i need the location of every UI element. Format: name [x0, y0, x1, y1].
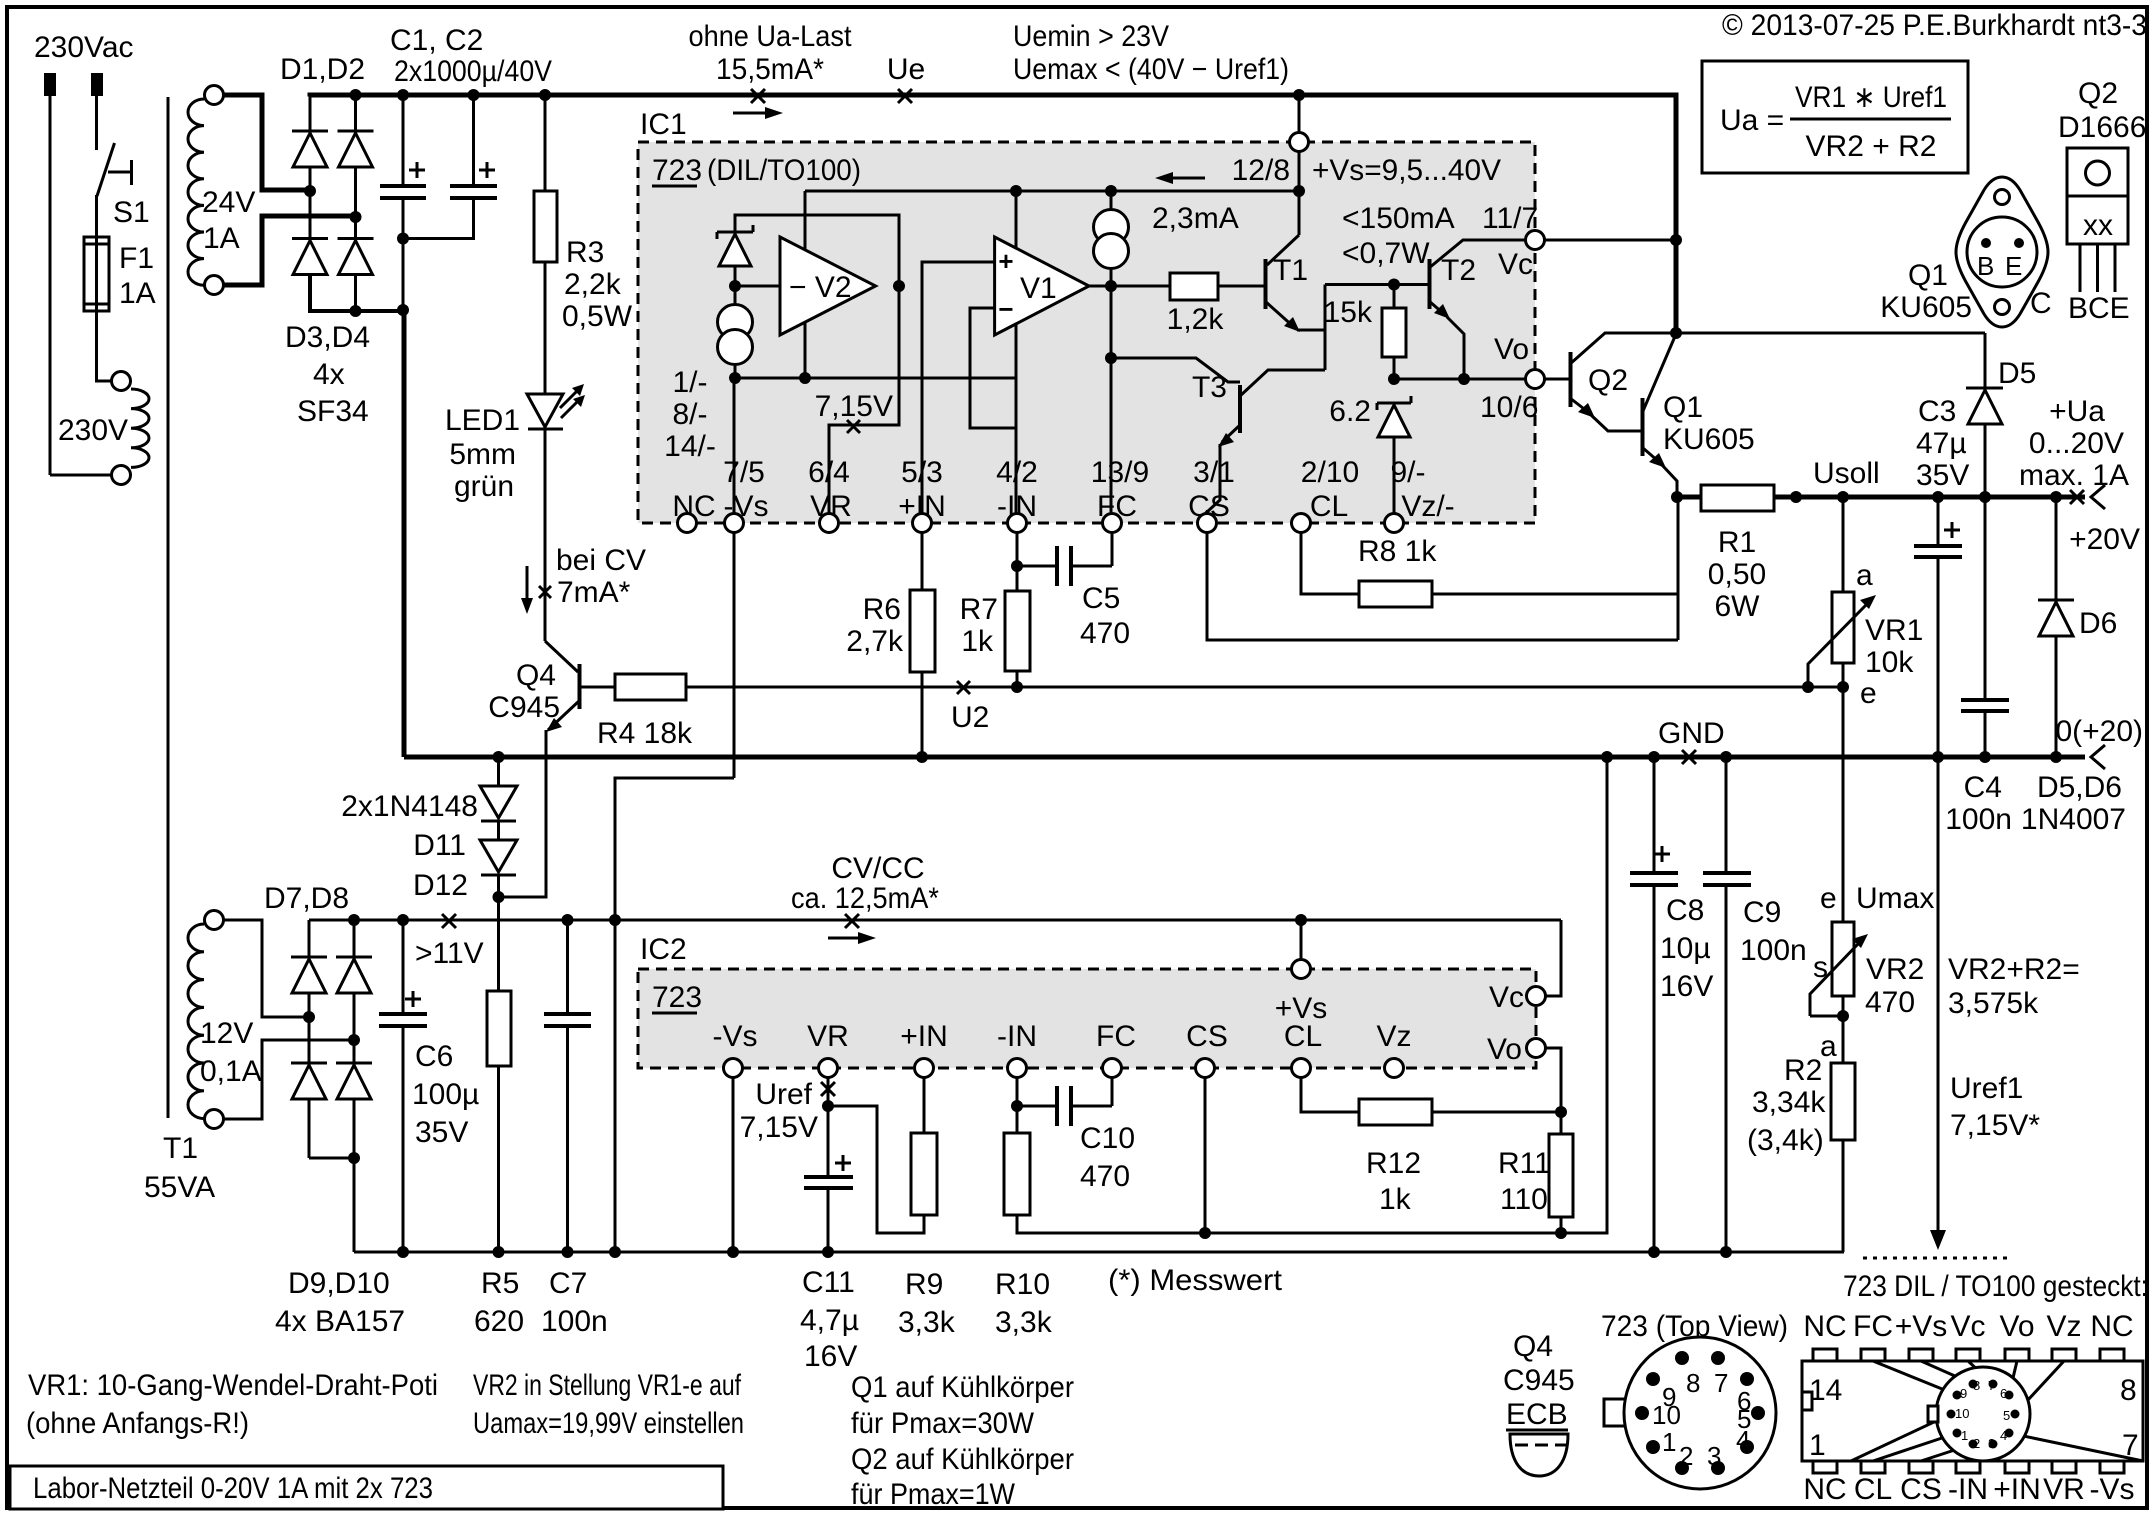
wire 24V bottom to bridge mid-right: [224, 216, 354, 285]
IC2 -Vs line: [732, 1078, 735, 1252]
LED1: [527, 394, 563, 427]
svg-text:NC: NC: [2090, 1310, 2133, 1343]
svg-text:Vo: Vo: [1494, 333, 1529, 366]
svg-text:7,15V: 7,15V: [740, 1111, 818, 1144]
transistor Q2 (driver): [1569, 352, 1573, 407]
svg-text:2,2k: 2,2k: [564, 268, 622, 301]
svg-text:C8: C8: [1666, 894, 1704, 927]
svg-text:D9,D10: D9,D10: [288, 1267, 390, 1300]
svg-text:14: 14: [1809, 1374, 1842, 1407]
IC2 Vo: [1545, 1048, 1561, 1113]
svg-text:Usoll: Usoll: [1813, 457, 1880, 490]
svg-text:ohne Ua-Last: ohne Ua-Last: [689, 20, 853, 53]
svg-text:Q2: Q2: [1588, 364, 1628, 397]
svg-text:3,3k: 3,3k: [995, 1306, 1053, 1339]
wire: [50, 474, 112, 477]
svg-text:+IN: +IN: [1993, 1473, 2041, 1506]
svg-text:1: 1: [1809, 1429, 1826, 1462]
-IN internal to V1-: [970, 308, 1016, 514]
svg-text:R11: R11: [1498, 1147, 1551, 1180]
svg-text:4,7µ: 4,7µ: [800, 1304, 859, 1337]
svg-text:3: 3: [1988, 1436, 1995, 1451]
svg-text:8: 8: [1686, 1368, 1700, 1398]
svg-text:8: 8: [2120, 1374, 2137, 1407]
svg-text:max. 1A: max. 1A: [2019, 459, 2129, 492]
svg-text:R3: R3: [566, 236, 604, 269]
svg-text:R8 1k: R8 1k: [1358, 535, 1437, 568]
top supply bus: [310, 95, 1676, 333]
svg-text:7,15V: 7,15V: [815, 390, 893, 423]
svg-text:SF34: SF34: [297, 395, 369, 428]
VR1-e line down to VR2: [1842, 687, 1845, 922]
svg-text:Q1 auf Kühlkörper: Q1 auf Kühlkörper: [851, 1371, 1074, 1404]
C3 47u 35V: [1937, 497, 1940, 545]
bridge bottom bus: [310, 275, 404, 311]
svg-text:Uref1: Uref1: [1950, 1072, 2023, 1105]
op-amp V2: [780, 237, 876, 335]
svg-text:14/-: 14/-: [664, 430, 716, 463]
current direction arrow at IC1 input: [733, 112, 770, 115]
svg-text:2,7k: 2,7k: [846, 625, 904, 658]
svg-text:10k: 10k: [1865, 646, 1914, 679]
-Vs pin line: [733, 378, 736, 778]
mains plug pin N: [91, 73, 103, 96]
CS line down: [1204, 1078, 1207, 1233]
VR1 10k potentiometer: [1842, 497, 1845, 592]
svg-text:Ua =: Ua =: [1720, 104, 1784, 137]
svg-text:T2: T2: [1441, 254, 1476, 287]
svg-text:FC: FC: [1853, 1310, 1893, 1343]
reference zener: [717, 225, 753, 239]
C9 100n: [1725, 757, 1728, 872]
svg-text:e: e: [1860, 677, 1877, 710]
R10 3,3k: [1016, 1078, 1019, 1133]
svg-text:723: 723: [652, 981, 702, 1014]
C10 470: [1017, 1105, 1055, 1108]
svg-text:D5,D6: D5,D6: [2037, 771, 2122, 804]
svg-text:-Vs: -Vs: [713, 1020, 758, 1053]
diode D9: [308, 1017, 311, 1158]
bei CV measurement: [526, 566, 529, 604]
svg-text:723: 723: [652, 154, 702, 187]
IC2 +Vs: [1295, 914, 1307, 926]
svg-text:Vc: Vc: [1489, 981, 1524, 1014]
svg-text:3,34k: 3,34k: [1752, 1086, 1826, 1119]
svg-text:bei CV: bei CV: [556, 544, 646, 577]
transformer secondary 24V winding: [205, 86, 224, 105]
svg-text:10/6: 10/6: [1480, 391, 1538, 424]
svg-text:C10: C10: [1080, 1122, 1135, 1155]
thick vertical to GND rail: [402, 311, 407, 757]
svg-text:Q1: Q1: [1663, 391, 1703, 424]
svg-text:35V: 35V: [415, 1116, 468, 1149]
transformer secondary 12V winding: [205, 911, 224, 930]
svg-text:+Vs: +Vs: [1895, 1310, 1948, 1343]
svg-text:3,575k: 3,575k: [1948, 987, 2039, 1020]
svg-text:5: 5: [2003, 1408, 2010, 1423]
transistor Q1 (pass): [1641, 398, 1645, 456]
svg-text:VR2+R2=: VR2+R2=: [1948, 953, 2080, 986]
svg-text:9: 9: [1960, 1386, 1967, 1401]
Q1 KU605 TO-3 package: [1956, 177, 2048, 327]
wire: [49, 96, 52, 475]
svg-text:6/4: 6/4: [808, 456, 850, 489]
diode D2: [354, 95, 357, 217]
svg-text:a: a: [1856, 559, 1873, 592]
C4 100n: [1984, 497, 1987, 699]
svg-text:35V: 35V: [1916, 459, 1969, 492]
svg-text:2x1N4148: 2x1N4148: [341, 790, 478, 823]
V2 out to VR pin 7,15V: [829, 286, 899, 514]
svg-text:0(+20): 0(+20): [2055, 715, 2143, 748]
svg-text:<0,7W: <0,7W: [1342, 237, 1430, 270]
svg-text:Q2: Q2: [2078, 77, 2118, 110]
svg-text:3,3k: 3,3k: [898, 1306, 956, 1339]
svg-text:100n: 100n: [1740, 934, 1807, 967]
bus junction dots top: [304, 185, 316, 197]
diode D6: [2055, 497, 2058, 600]
svg-text:T3: T3: [1192, 371, 1227, 404]
CS sense line: [1207, 533, 1678, 640]
svg-text:0,5W: 0,5W: [562, 300, 633, 333]
svg-text:1N4007: 1N4007: [2021, 803, 2126, 836]
internal +Vs rail: [805, 190, 1299, 193]
svg-text:VR: VR: [807, 1020, 849, 1053]
svg-text:100µ: 100µ: [412, 1078, 479, 1111]
fuse F1: [84, 237, 109, 311]
svg-text:VR1: 10-Gang-Wendel-Draht-Poti: VR1: 10-Gang-Wendel-Draht-Poti: [28, 1369, 438, 1402]
C11 4,7u 16V: [827, 1106, 830, 1176]
svg-text:C945: C945: [1503, 1364, 1575, 1397]
svg-text:Vc: Vc: [1498, 248, 1533, 281]
diode D5: [1984, 333, 1987, 388]
output bus with R1: [1677, 495, 1701, 500]
svg-text:R4 18k: R4 18k: [597, 717, 693, 750]
svg-text:C6: C6: [415, 1040, 453, 1073]
svg-text:Umax: Umax: [1856, 882, 1934, 915]
R9 3,3k: [923, 1078, 926, 1133]
svg-text:D1,D2: D1,D2: [280, 53, 365, 86]
svg-text:723 DIL / TO100 gesteckt:: 723 DIL / TO100 gesteckt:: [1843, 1270, 2148, 1303]
svg-text:9/-: 9/-: [1390, 456, 1425, 489]
svg-text:KU605: KU605: [1880, 291, 1972, 324]
svg-text:100n: 100n: [541, 1305, 608, 1338]
svg-text:T1: T1: [163, 1132, 198, 1165]
svg-text:1/-: 1/-: [672, 366, 707, 399]
svg-text:4: 4: [2000, 1428, 2007, 1443]
svg-text:620: 620: [474, 1305, 524, 1338]
capacitor C1: [402, 95, 405, 185]
wires 12V winding to bridge: [224, 920, 309, 1017]
op-amp V1: [995, 237, 1089, 335]
svg-text:xx: xx: [2083, 209, 2113, 242]
svg-text:1,2k: 1,2k: [1167, 303, 1225, 336]
svg-text:C9: C9: [1743, 896, 1781, 929]
svg-text:−: −: [998, 294, 1013, 324]
Vc wire to supply: [1544, 239, 1676, 242]
Q4 emitter jog to D11 chain: [499, 757, 547, 897]
svg-text:D3,D4: D3,D4: [285, 321, 370, 354]
svg-text:Vo: Vo: [1999, 1310, 2034, 1343]
svg-text:VR1: VR1: [1865, 614, 1923, 647]
diode D1: [309, 95, 312, 191]
+Vs drop from bus: [1298, 95, 1301, 133]
svg-text:1: 1: [1662, 1427, 1676, 1457]
switch S1: [97, 143, 115, 196]
svg-text:15,5mA*: 15,5mA*: [716, 53, 824, 86]
svg-text:8/-: 8/-: [672, 398, 707, 431]
IC1 dashed gray box: [638, 142, 1535, 523]
svg-text:Vz/-: Vz/-: [1401, 490, 1454, 523]
C6 100u 35V: [402, 920, 405, 1013]
svg-text:Vo: Vo: [1487, 1033, 1522, 1066]
svg-text:F1: F1: [119, 242, 154, 275]
svg-text:C7: C7: [549, 1267, 587, 1300]
transformer core: [167, 97, 170, 1118]
svg-text:Ue: Ue: [887, 53, 925, 86]
svg-text:Vc: Vc: [1950, 1310, 1985, 1343]
svg-text:VR: VR: [2043, 1473, 2085, 1506]
svg-text:R9: R9: [905, 1268, 943, 1301]
IC2 Vc: [1545, 920, 1561, 996]
svg-text:(DIL/TO100): (DIL/TO100): [707, 154, 861, 187]
svg-text:4/2: 4/2: [996, 456, 1038, 489]
svg-text:47µ: 47µ: [1916, 427, 1967, 460]
svg-text:IC1: IC1: [640, 108, 687, 141]
svg-text:U2: U2: [951, 701, 989, 734]
svg-text:-IN: -IN: [1948, 1473, 1988, 1506]
svg-text:Vz: Vz: [1376, 1020, 1411, 1053]
resistor R4 18k: [580, 686, 615, 689]
svg-text:D1666: D1666: [2058, 111, 2146, 144]
svg-text:15k: 15k: [1324, 296, 1373, 329]
svg-text:R1: R1: [1718, 526, 1756, 559]
wire: [95, 96, 98, 150]
svg-text:E: E: [2005, 251, 2022, 281]
svg-text:Q1: Q1: [1908, 259, 1948, 292]
svg-text:1k: 1k: [961, 625, 994, 658]
svg-text:V1: V1: [1020, 272, 1057, 305]
svg-text:12V: 12V: [200, 1017, 253, 1050]
svg-text:24V: 24V: [202, 186, 255, 219]
svg-text:Uref: Uref: [755, 1078, 812, 1111]
svg-text:(*) Messwert: (*) Messwert: [1108, 1264, 1283, 1297]
mains plug pin L: [44, 73, 56, 96]
svg-text:11/7: 11/7: [1482, 202, 1538, 235]
svg-text:© 2013-07-25 P.E.Burkhardt nt3: © 2013-07-25 P.E.Burkhardt nt3-3: [1722, 9, 2147, 42]
bridge2 bottom: [309, 1158, 354, 1252]
svg-text:R2: R2: [1784, 1054, 1822, 1087]
svg-text:110: 110: [1500, 1183, 1548, 1216]
Uref1 measurement arrow: [1937, 757, 1940, 1235]
IC1 pin circles: [678, 514, 697, 533]
capacitor C2: [472, 95, 475, 185]
V1 output node to FC pin: [1089, 285, 1111, 288]
svg-text:D6: D6: [2079, 607, 2117, 640]
svg-text:Q4: Q4: [516, 659, 556, 692]
svg-text:2,3mA: 2,3mA: [1152, 202, 1239, 235]
svg-text:GND: GND: [1658, 717, 1725, 750]
svg-text:VR2: VR2: [1866, 953, 1924, 986]
svg-text:470: 470: [1080, 617, 1130, 650]
svg-text:12/8: 12/8: [1232, 154, 1290, 187]
svg-text:grün: grün: [454, 470, 514, 503]
U2 sense line: [686, 686, 1843, 689]
Vo wire: [1394, 378, 1526, 381]
svg-text:CV/CC: CV/CC: [831, 852, 924, 885]
svg-text:BCE: BCE: [2068, 292, 2130, 325]
svg-text:8: 8: [1973, 1378, 1980, 1393]
svg-text:Labor-Netzteil 0-20V 1A mit 2x: Labor-Netzteil 0-20V 1A mit 2x 723: [33, 1472, 433, 1505]
svg-text:Uemin > 23V: Uemin > 23V: [1013, 20, 1169, 53]
svg-text:C5: C5: [1082, 582, 1120, 615]
svg-text:VR1 ∗ Uref1: VR1 ∗ Uref1: [1795, 81, 1947, 114]
svg-text:+Vs=9,5...40V: +Vs=9,5...40V: [1312, 154, 1501, 187]
svg-text:KU605: KU605: [1663, 423, 1755, 456]
svg-text:(3,4k): (3,4k): [1747, 1124, 1824, 1157]
diode D8: [353, 920, 356, 1040]
wire to V2 minus input: [735, 285, 780, 288]
svg-text:10µ: 10µ: [1660, 932, 1711, 965]
svg-text:LED1: LED1: [445, 404, 520, 437]
svg-text:4x BA157: 4x BA157: [275, 1305, 405, 1338]
svg-text:ECB: ECB: [1506, 1398, 1568, 1431]
svg-text:4x: 4x: [313, 358, 345, 391]
svg-text:D7,D8: D7,D8: [264, 882, 349, 915]
svg-text:-IN: -IN: [997, 1020, 1037, 1053]
svg-text:NC: NC: [1803, 1473, 1846, 1506]
svg-text:D12: D12: [413, 869, 468, 902]
svg-text:VR2 + R2: VR2 + R2: [1806, 130, 1937, 163]
+IN pin line up to V1+: [922, 262, 994, 514]
C5 470: [1017, 565, 1055, 568]
svg-text:Uemax < (40V − Uref1): Uemax < (40V − Uref1): [1013, 53, 1289, 86]
VR2 470 potentiometer: [1832, 922, 1854, 996]
R11 110: [1560, 1112, 1563, 1134]
C7 100n: [566, 920, 569, 1013]
CL to R8 1k: [1301, 533, 1359, 594]
svg-text:+: +: [998, 246, 1013, 276]
wire: [95, 195, 98, 237]
svg-text:4: 4: [1736, 1425, 1750, 1455]
svg-text:3/1: 3/1: [1193, 456, 1235, 489]
formula box: [1702, 61, 1968, 173]
C8 10u 16V: [1653, 757, 1656, 872]
svg-text:5/3: 5/3: [901, 456, 943, 489]
internal -Vs rail: [735, 377, 1016, 380]
svg-text:CS: CS: [1900, 1473, 1942, 1506]
svg-text:7/5: 7/5: [723, 456, 765, 489]
svg-text:7,15V*: 7,15V*: [1950, 1109, 2040, 1142]
svg-text:S1: S1: [113, 196, 150, 229]
svg-text:10: 10: [1652, 1400, 1681, 1430]
svg-text:− V2: − V2: [789, 271, 852, 304]
svg-text:6: 6: [2000, 1386, 2007, 1401]
svg-text:16V: 16V: [1660, 970, 1713, 1003]
svg-text:R10: R10: [995, 1268, 1050, 1301]
svg-text:s: s: [1813, 951, 1828, 984]
svg-text:a: a: [1820, 1030, 1837, 1063]
GND rail: [404, 755, 2085, 760]
svg-text:R12: R12: [1366, 1147, 1421, 1180]
svg-text:Uamax=19,99V einstellen: Uamax=19,99V einstellen: [473, 1407, 744, 1440]
svg-text:10: 10: [1955, 1406, 1969, 1421]
svg-text:13/9: 13/9: [1091, 456, 1149, 489]
wire to T3 base: [1111, 358, 1240, 382]
svg-text:1A: 1A: [203, 222, 240, 255]
svg-text:Q4: Q4: [1513, 1330, 1553, 1363]
V2 current source: [718, 305, 753, 340]
svg-text:C945: C945: [488, 691, 560, 724]
connection lines DIL to TO100: [1873, 1361, 1957, 1395]
svg-text:C11: C11: [802, 1266, 855, 1299]
svg-text:R6: R6: [863, 593, 901, 626]
diode D10: [353, 1040, 356, 1158]
Uref marker: [827, 1078, 830, 1106]
Vo wire to Q2 base: [1544, 378, 1569, 381]
svg-text:R5: R5: [481, 1267, 519, 1300]
svg-text:6W: 6W: [1715, 590, 1761, 623]
svg-text:für Pmax=1W: für Pmax=1W: [851, 1478, 1016, 1511]
svg-text:7mA*: 7mA*: [557, 576, 631, 609]
svg-text:Vz: Vz: [2046, 1310, 2081, 1343]
diode D4: [354, 217, 357, 311]
IC1 -Vs jog down to 0V bus: [615, 778, 734, 1252]
svg-text:B: B: [1977, 251, 1994, 281]
svg-text:(ohne Anfangs-R!): (ohne Anfangs-R!): [26, 1407, 249, 1440]
transistor T1: [1298, 191, 1301, 235]
svg-text:+Ua: +Ua: [2049, 395, 2105, 428]
svg-text:1k: 1k: [1379, 1183, 1412, 1216]
svg-text:7: 7: [1988, 1378, 1995, 1393]
transformer T1 primary 230V: [112, 372, 131, 391]
svg-text:7: 7: [1714, 1368, 1728, 1398]
svg-text:e: e: [1820, 882, 1837, 915]
V1 current source 2,3mA: [1110, 191, 1113, 211]
svg-text:Q2 auf Kühlkörper: Q2 auf Kühlkörper: [851, 1443, 1074, 1476]
svg-text:CL: CL: [1284, 1020, 1322, 1053]
resistor 1,2k: [1111, 285, 1170, 288]
svg-text:0,1A: 0,1A: [200, 1055, 262, 1088]
svg-text:FC: FC: [1096, 1020, 1136, 1053]
svg-text:55VA: 55VA: [144, 1171, 215, 1204]
IC2 gnd return rail: [1205, 757, 1607, 1233]
svg-text:IC2: IC2: [640, 933, 687, 966]
V2 feedback loop: [735, 215, 899, 286]
svg-text:0...20V: 0...20V: [2029, 427, 2124, 460]
svg-text:+IN: +IN: [900, 1020, 948, 1053]
resistor 15k: [1393, 285, 1396, 309]
svg-text:C: C: [2030, 287, 2052, 320]
R6 2,7k: [921, 533, 924, 590]
diodes D11 D12 2x1N4148: [497, 757, 500, 786]
bottom 0V bus: [354, 1251, 1844, 1254]
svg-text:0,50: 0,50: [1708, 558, 1766, 591]
collector node and D5 feed line: [1676, 332, 1985, 335]
title box: [10, 1466, 723, 1509]
svg-text:2x1000µ/40V: 2x1000µ/40V: [394, 55, 552, 88]
IC1 internal junction dots: [893, 280, 905, 292]
U2 marker: [957, 681, 970, 694]
svg-text:R7: R7: [960, 593, 998, 626]
IC2 pin circles: [724, 1059, 743, 1078]
svg-text:D11: D11: [413, 829, 466, 862]
svg-text:T1: T1: [1273, 254, 1308, 287]
wire 24V top to bridge mid-left: [224, 95, 309, 190]
svg-text:CL: CL: [1310, 490, 1348, 523]
R12 1k: [1301, 1078, 1359, 1112]
lower supply rail >11V: [309, 919, 1561, 922]
